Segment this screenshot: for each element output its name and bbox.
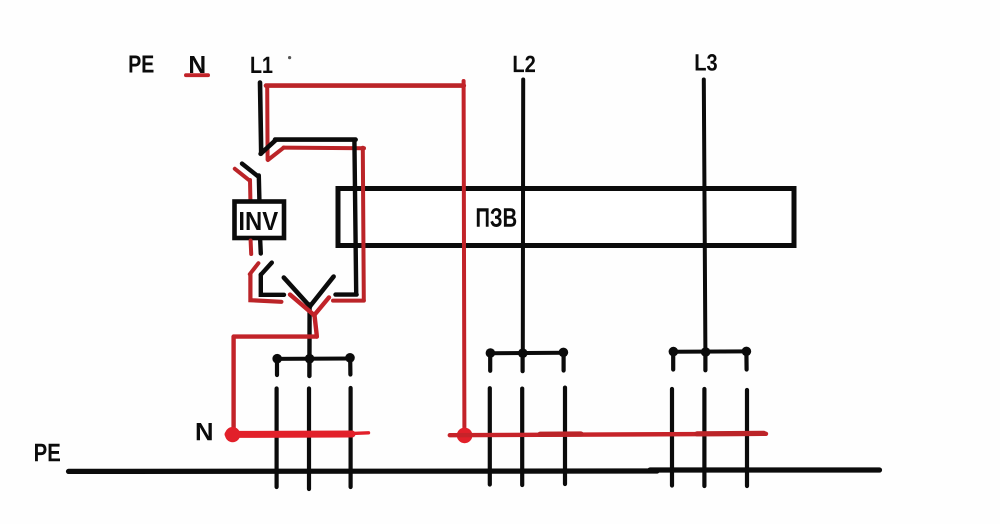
wire black: horizontal y=139.5 to ПЗВ input <box>275 137 356 142</box>
wire red: Y stem <box>314 315 316 337</box>
inverter U1 box INV <box>235 202 285 239</box>
wire red: L below S2 <box>250 274 281 302</box>
bus L3 bar <box>672 349 748 353</box>
stray ink dot <box>288 56 291 59</box>
node N2 red dot <box>457 428 473 444</box>
wire red: horizontal y=336.5 to N drop <box>234 334 317 338</box>
wire red: vertical drop to N node <box>231 337 235 430</box>
wire red: Y right arm <box>314 297 329 315</box>
label ПЗВ <box>477 208 516 227</box>
bus L2 bar <box>489 351 565 355</box>
wire black: horizontal y=294.5 below ПЗВ <box>336 292 357 296</box>
N red underline <box>184 73 210 77</box>
wire red: horizontal y=147.5 to ПЗВ input <box>284 146 365 151</box>
switch S1 red blade (to INV input) <box>235 169 250 181</box>
wire black stub below INV <box>258 241 263 254</box>
wire red: top horizontal from L1 to x=464 <box>266 83 464 88</box>
wire red stub below INV <box>249 241 254 255</box>
label INV <box>240 212 278 230</box>
wire red: vertical through ПЗВ at x=363 <box>363 148 364 301</box>
label L1 <box>251 57 272 73</box>
wire red: diagonal at upper switch output <box>268 148 284 160</box>
junction dots L2 bus <box>486 348 569 358</box>
wire red: vertical from top horizontal down to N bus at x=464 <box>462 81 467 430</box>
stubs below L2 bus <box>490 353 563 371</box>
switch S2 black blade (below INV) <box>261 263 272 275</box>
node N red dot <box>225 427 240 442</box>
RCD box ПЗВ <box>338 189 794 246</box>
switch S2 red blade (below INV) <box>250 263 259 274</box>
PE bus line <box>69 470 880 471</box>
wire N red: vertical drop from label N area (L1 hot red) <box>265 86 269 160</box>
wire black L below S2 <box>261 275 284 295</box>
switch S1 black blade (to INV input) <box>242 164 258 176</box>
wire L1 black vertical <box>260 83 261 154</box>
label L3 <box>696 54 717 71</box>
node Y black: right arm <box>310 277 334 307</box>
wire red: Y left arm <box>290 295 314 316</box>
prongs L1 (three output wires) <box>277 388 351 489</box>
wire L3 vertical <box>704 80 706 353</box>
junction dots L3 bus <box>669 347 752 357</box>
label N (top) <box>190 56 205 73</box>
node Y black: left arm <box>284 278 310 307</box>
junction dots L1 bus <box>272 353 354 364</box>
wire black: vertical through ПЗВ at x=355 <box>354 140 356 293</box>
label PE (bottom) <box>35 444 60 462</box>
label N (bottom) <box>197 423 212 440</box>
wire red into INV top <box>248 180 252 200</box>
prongs L3 (three output wires) <box>672 389 747 486</box>
wire red: horizontal y=300.5 below ПЗВ <box>333 299 364 303</box>
node Y black: stem to L1 bus <box>307 305 312 377</box>
label L2 <box>514 56 535 73</box>
label PE (top) <box>130 56 154 73</box>
wire L2 vertical <box>521 80 525 354</box>
stubs below L3 bus <box>673 352 746 370</box>
wire black: diagonal at upper switch <box>261 140 276 154</box>
stubs below L1 bus <box>277 358 350 375</box>
wire black into INV top <box>257 175 262 200</box>
bus L1 bar <box>275 357 353 361</box>
N bus red line to L3 group <box>450 433 766 435</box>
prongs L2 (three output wires) <box>490 388 565 485</box>
N bus thick red segment <box>228 433 369 435</box>
